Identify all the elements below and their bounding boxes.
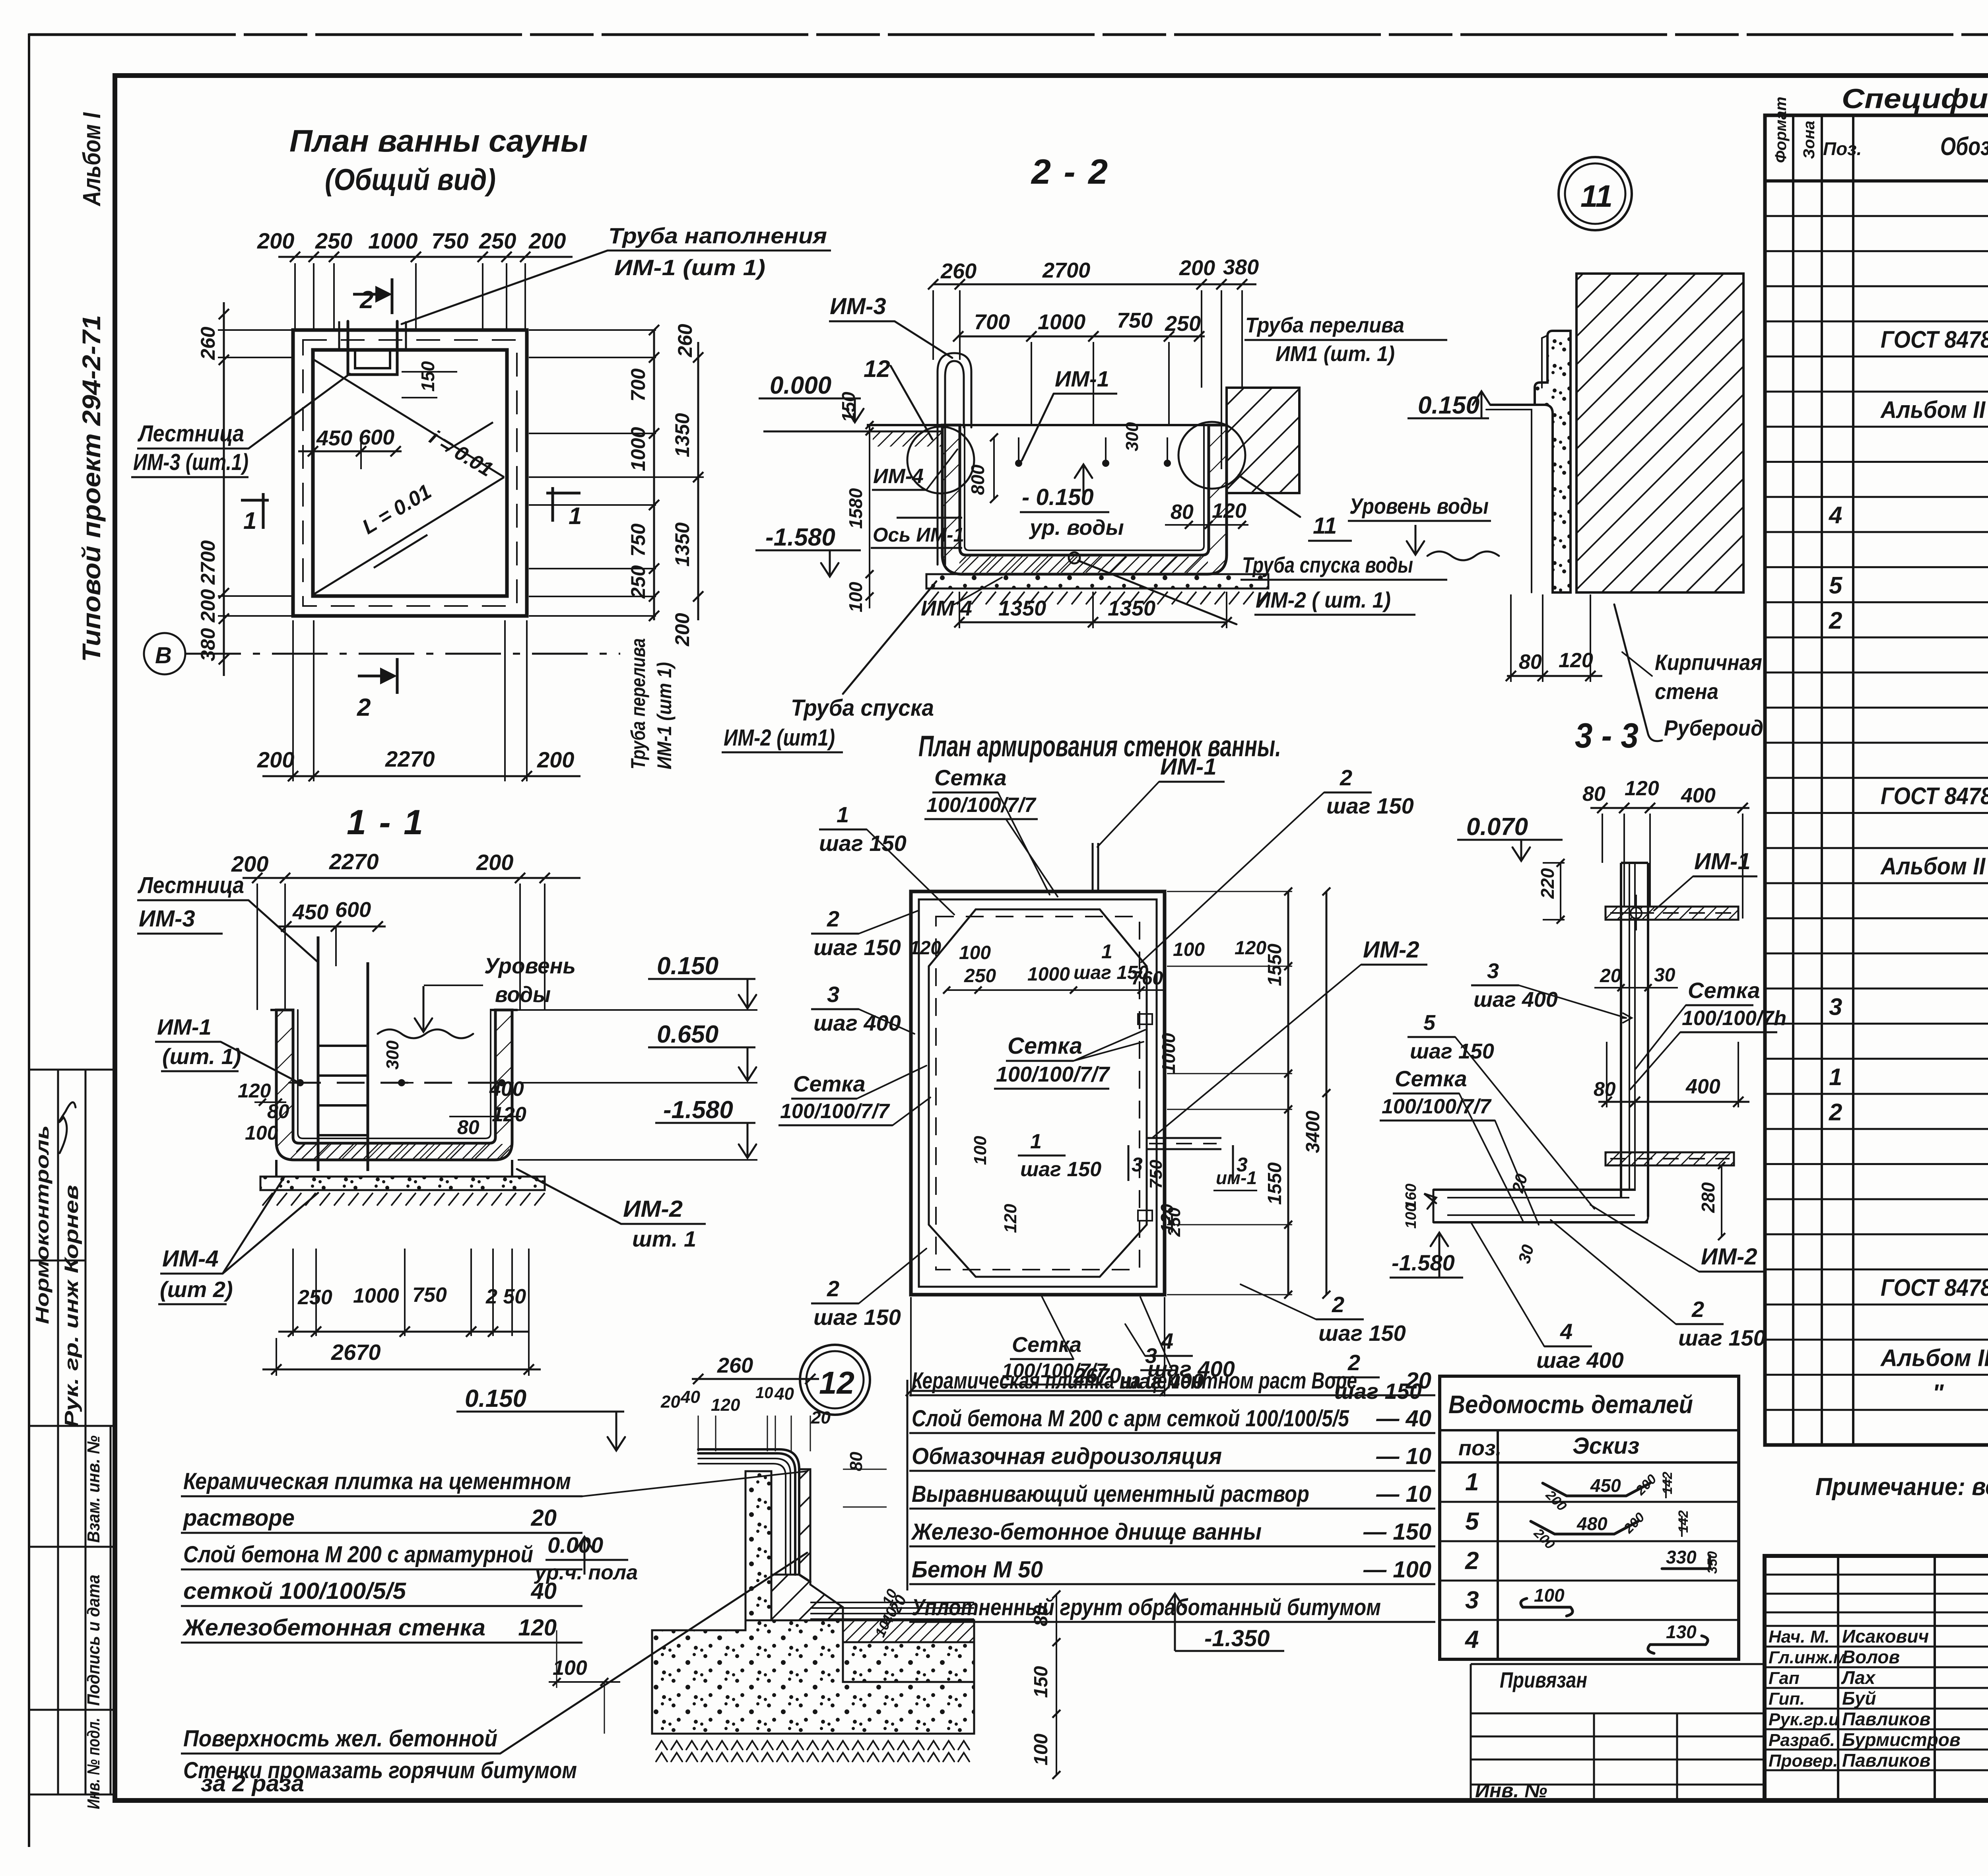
svg-text:шаг 400: шаг 400 bbox=[1536, 1348, 1624, 1373]
svg-text:Железо-бетонное днище ванны: Железо-бетонное днище ванны bbox=[911, 1519, 1262, 1545]
svg-text:-1.580: -1.580 bbox=[1392, 1250, 1455, 1275]
svg-text:Железобетонная стенка: Железобетонная стенка bbox=[182, 1615, 485, 1641]
svg-text:2: 2 bbox=[359, 286, 373, 314]
svg-text:100: 100 bbox=[1031, 1734, 1052, 1765]
svg-text:ИМ-4: ИМ-4 bbox=[873, 465, 924, 488]
svg-text:ИМ-2: ИМ-2 bbox=[1701, 1244, 1757, 1270]
svg-text:150: 150 bbox=[1031, 1666, 1052, 1698]
svg-text:2: 2 bbox=[1829, 1099, 1842, 1125]
svg-text:Сетка: Сетка bbox=[934, 765, 1007, 790]
svg-text:250: 250 bbox=[627, 565, 649, 599]
svg-text:0.150: 0.150 bbox=[657, 952, 718, 980]
svg-text:Альбом II лист КМИ 8: Альбом II лист КМИ 8 bbox=[1880, 1344, 1988, 1371]
svg-text:750: 750 bbox=[412, 1284, 447, 1307]
svg-text:Поз.: Поз. bbox=[1823, 138, 1862, 159]
svg-text:Труба наполнения: Труба наполнения bbox=[608, 223, 827, 248]
svg-text:Ведомость деталей: Ведомость деталей bbox=[1448, 1390, 1693, 1419]
svg-text:120: 120 bbox=[1235, 938, 1266, 959]
svg-text:План ванны сауны: План ванны сауны bbox=[289, 123, 588, 158]
svg-text:2: 2 bbox=[827, 906, 839, 931]
svg-text:Эскиз: Эскиз bbox=[1573, 1433, 1639, 1459]
svg-text:шт. 1: шт. 1 bbox=[632, 1226, 696, 1251]
svg-text:400: 400 bbox=[489, 1078, 524, 1101]
svg-text:Бурмистров: Бурмистров bbox=[1842, 1729, 1961, 1750]
svg-text:Труба перелива: Труба перелива bbox=[627, 638, 649, 769]
svg-text:5: 5 bbox=[1465, 1508, 1479, 1535]
svg-text:80: 80 bbox=[1594, 1078, 1616, 1100]
svg-text:2270: 2270 bbox=[329, 849, 379, 874]
svg-text:ИМ-2 (шт1): ИМ-2 (шт1) bbox=[724, 725, 835, 751]
svg-text:— 10: — 10 bbox=[1376, 1443, 1431, 1469]
svg-text:2: 2 bbox=[1691, 1297, 1704, 1322]
svg-text:Лестница: Лестница bbox=[137, 872, 244, 898]
svg-text:260: 260 bbox=[197, 326, 219, 360]
svg-text:0.070: 0.070 bbox=[1466, 813, 1528, 841]
svg-text:200: 200 bbox=[528, 228, 566, 253]
svg-text:-1.580: -1.580 bbox=[663, 1096, 733, 1124]
svg-text:12: 12 bbox=[819, 1365, 854, 1400]
svg-text:Сетка: Сетка bbox=[793, 1071, 866, 1096]
svg-text:ИМ-4: ИМ-4 bbox=[162, 1246, 219, 1272]
svg-text:750: 750 bbox=[627, 523, 649, 557]
svg-text:- 0.150: - 0.150 bbox=[1022, 484, 1094, 510]
svg-text:100: 100 bbox=[553, 1657, 587, 1680]
svg-text:Павликов: Павликов bbox=[1842, 1709, 1930, 1729]
svg-text:— 150: — 150 bbox=[1363, 1519, 1431, 1545]
svg-text:3400: 3400 bbox=[1303, 1111, 1324, 1153]
svg-text:ИМ-2: ИМ-2 bbox=[623, 1196, 683, 1222]
svg-text:1: 1 bbox=[1030, 1130, 1042, 1153]
svg-text:Альбом I: Альбом I bbox=[78, 112, 106, 206]
svg-text:Инв. № подл.: Инв. № подл. bbox=[84, 1718, 103, 1809]
svg-text:20: 20 bbox=[1405, 1368, 1431, 1394]
svg-text:80: 80 bbox=[1031, 1605, 1052, 1626]
svg-text:шаг 150: шаг 150 bbox=[813, 935, 901, 960]
svg-text:1350: 1350 bbox=[1108, 596, 1155, 620]
svg-text:Спецификация: Спецификация bbox=[1842, 83, 1988, 114]
svg-text:80: 80 bbox=[457, 1116, 480, 1138]
svg-text:0.000: 0.000 bbox=[770, 372, 831, 399]
svg-text:280: 280 bbox=[1698, 1182, 1718, 1213]
svg-text:Лах: Лах bbox=[1841, 1667, 1876, 1688]
svg-text:4: 4 bbox=[1560, 1319, 1573, 1344]
svg-text:Буй: Буй bbox=[1842, 1688, 1876, 1709]
svg-text:Выравнивающий цементный раст: Выравнивающий цементный раствор bbox=[912, 1481, 1309, 1507]
svg-text:Труба спуска воды: Труба спуска воды bbox=[1242, 552, 1413, 577]
svg-text:2: 2 bbox=[1340, 765, 1352, 790]
svg-text:Исакович: Исакович bbox=[1842, 1626, 1929, 1647]
svg-text:200: 200 bbox=[1179, 256, 1215, 280]
svg-text:— 40: — 40 bbox=[1376, 1406, 1431, 1431]
svg-text:250: 250 bbox=[479, 228, 516, 253]
svg-text:Слой бетона М 200 с арм сеткой: Слой бетона М 200 с арм сеткой 100/100/5… bbox=[912, 1406, 1349, 1431]
svg-text:Уровень: Уровень bbox=[484, 953, 576, 978]
svg-text:3: 3 bbox=[827, 982, 839, 1007]
svg-text:ИМ-1: ИМ-1 bbox=[157, 1014, 212, 1039]
svg-text:воды: воды bbox=[495, 982, 551, 1007]
svg-text:стена: стена bbox=[1655, 679, 1718, 704]
svg-text:20: 20 bbox=[660, 1392, 680, 1412]
svg-text:4: 4 bbox=[1464, 1626, 1479, 1653]
svg-text:3: 3 bbox=[1487, 959, 1499, 983]
svg-text:ур. воды: ур. воды bbox=[1029, 516, 1124, 540]
svg-text:20: 20 bbox=[1600, 965, 1621, 987]
svg-text:Типовой проект 294-2-71: Типовой проект 294-2-71 bbox=[77, 315, 106, 662]
svg-text:400: 400 bbox=[1681, 784, 1716, 807]
svg-text:250: 250 bbox=[315, 228, 352, 253]
svg-text:1000: 1000 bbox=[368, 228, 418, 253]
svg-text:Павликов: Павликов bbox=[1842, 1750, 1930, 1771]
svg-text:Рук. гр. инж Корнев: Рук. гр. инж Корнев bbox=[61, 1185, 82, 1427]
svg-text:за 2 раза: за 2 раза bbox=[201, 1771, 304, 1796]
svg-text:ИМ-1 (шт 1): ИМ-1 (шт 1) bbox=[653, 662, 676, 769]
svg-text:1350: 1350 bbox=[671, 413, 693, 457]
svg-text:Труба спуска: Труба спуска bbox=[791, 695, 934, 721]
svg-text:750: 750 bbox=[1117, 309, 1153, 332]
svg-text:5: 5 bbox=[1829, 572, 1843, 599]
svg-text:2700: 2700 bbox=[1042, 258, 1090, 282]
svg-text:100/100/7/7: 100/100/7/7 bbox=[1382, 1095, 1492, 1118]
svg-text:120: 120 bbox=[1001, 1204, 1020, 1233]
svg-text:150: 150 bbox=[838, 392, 859, 422]
svg-text:4: 4 bbox=[1161, 1328, 1173, 1354]
svg-text:Труба перелива: Труба перелива bbox=[1245, 313, 1404, 337]
svg-text:Рубероид: Рубероид bbox=[1664, 715, 1763, 740]
svg-text:Примечание: ведомость расход: Примечание: ведомость расхода стали см. … bbox=[1815, 1473, 1988, 1501]
svg-text:450: 450 bbox=[1590, 1475, 1621, 1496]
svg-text:2270: 2270 bbox=[385, 746, 435, 771]
svg-text:100: 100 bbox=[845, 582, 866, 612]
svg-text:Взам. инв. №: Взам. инв. № bbox=[84, 1435, 103, 1543]
svg-text:ИМ-3: ИМ-3 bbox=[139, 906, 195, 932]
svg-text:Керамическая плитка на цементн: Керамическая плитка на цементном bbox=[183, 1468, 571, 1494]
svg-text:1350: 1350 bbox=[671, 522, 693, 567]
svg-text:20: 20 bbox=[811, 1408, 831, 1427]
svg-text:Поверхность жел. бетонной: Поверхность жел. бетонной bbox=[183, 1726, 497, 1752]
svg-text:100: 100 bbox=[959, 942, 991, 963]
svg-text:120: 120 bbox=[711, 1395, 740, 1415]
svg-text:100/100/7/7: 100/100/7/7 bbox=[780, 1100, 890, 1123]
svg-text:120: 120 bbox=[1157, 1204, 1177, 1233]
svg-text:0.650: 0.650 bbox=[657, 1021, 718, 1048]
svg-text:1000: 1000 bbox=[1038, 310, 1085, 334]
svg-text:260: 260 bbox=[674, 324, 696, 357]
svg-text:1000: 1000 bbox=[1027, 964, 1070, 985]
svg-text:3: 3 bbox=[1132, 1154, 1143, 1176]
svg-text:800: 800 bbox=[967, 464, 988, 495]
svg-text:142: 142 bbox=[1660, 1472, 1675, 1494]
svg-text:150: 150 bbox=[417, 361, 438, 392]
svg-text:шаг 150: шаг 150 bbox=[1020, 1158, 1101, 1181]
svg-text:Формат: Формат bbox=[1772, 97, 1790, 163]
svg-text:2700: 2700 bbox=[197, 540, 219, 585]
svg-text:Инв. №: Инв. № bbox=[1475, 1779, 1547, 1802]
svg-text:Бетон М 50: Бетон М 50 bbox=[912, 1557, 1043, 1583]
svg-text:ИМ 4: ИМ 4 bbox=[921, 596, 972, 620]
svg-text:480: 480 bbox=[1576, 1513, 1607, 1534]
svg-text:80: 80 bbox=[1519, 651, 1542, 674]
svg-text:200: 200 bbox=[197, 589, 219, 623]
svg-text:120: 120 bbox=[518, 1615, 557, 1641]
svg-text:200: 200 bbox=[476, 850, 513, 875]
svg-text:ИМ-3: ИМ-3 bbox=[830, 293, 886, 319]
svg-text:Уплотненный грунт обработанн: Уплотненный грунт обработанный битумом bbox=[912, 1594, 1381, 1620]
svg-text:шаг 150: шаг 150 bbox=[813, 1305, 901, 1330]
svg-text:2: 2 bbox=[357, 694, 371, 721]
svg-text:700: 700 bbox=[627, 368, 649, 402]
svg-text:100: 100 bbox=[971, 1136, 990, 1165]
svg-text:450: 450 bbox=[292, 900, 328, 924]
svg-text:4: 4 bbox=[1829, 502, 1842, 528]
svg-text:(шт. 1): (шт. 1) bbox=[162, 1044, 241, 1069]
svg-text:-1.350: -1.350 bbox=[1204, 1625, 1270, 1651]
svg-text:Гл.инж.м: Гл.инж.м bbox=[1769, 1648, 1846, 1667]
svg-text:1550: 1550 bbox=[1264, 944, 1285, 986]
svg-text:3: 3 bbox=[1237, 1154, 1248, 1176]
svg-text:100: 100 bbox=[245, 1122, 278, 1144]
svg-text:1: 1 bbox=[569, 503, 582, 529]
svg-text:250: 250 bbox=[1165, 312, 1201, 336]
svg-text:5: 5 bbox=[1423, 1011, 1436, 1035]
svg-text:шаг 150: шаг 150 bbox=[1410, 1039, 1494, 1063]
svg-text:ИМ-2: ИМ-2 bbox=[1363, 937, 1419, 963]
svg-text:120: 120 bbox=[909, 938, 941, 959]
svg-text:ИМ-2 ( шт. 1): ИМ-2 ( шт. 1) bbox=[1256, 587, 1391, 612]
svg-text:ГОСТ 8478-66: ГОСТ 8478-66 bbox=[1881, 1274, 1988, 1301]
svg-text:поз.: поз. bbox=[1458, 1436, 1502, 1460]
svg-text:0.150: 0.150 bbox=[465, 1385, 526, 1412]
svg-text:2: 2 bbox=[1829, 607, 1842, 634]
svg-text:шаг 150: шаг 150 bbox=[1326, 793, 1414, 818]
svg-text:Провер.: Провер. bbox=[1769, 1751, 1838, 1771]
svg-text:шаг 150: шаг 150 bbox=[1678, 1325, 1766, 1350]
svg-text:Гап: Гап bbox=[1769, 1668, 1800, 1688]
svg-text:ИМ1 (шт. 1): ИМ1 (шт. 1) bbox=[1276, 342, 1395, 366]
svg-text:100/100/7/7: 100/100/7/7 bbox=[926, 794, 1037, 817]
svg-text:Керамическая плитка на цементн: Керамическая плитка на цементном раст Во… bbox=[912, 1368, 1357, 1394]
svg-text:1000: 1000 bbox=[1158, 1033, 1179, 1074]
svg-text:100: 100 bbox=[1403, 1204, 1419, 1229]
svg-text:80: 80 bbox=[846, 1452, 866, 1471]
svg-text:100/100/7/7: 100/100/7/7 bbox=[996, 1062, 1110, 1086]
svg-text:40: 40 bbox=[530, 1578, 557, 1604]
svg-text:Кирпичная: Кирпичная bbox=[1655, 650, 1762, 675]
svg-text:100/100/7h: 100/100/7h bbox=[1682, 1007, 1786, 1030]
svg-text:ИМ-3 (шт.1): ИМ-3 (шт.1) bbox=[133, 449, 248, 475]
svg-text:3: 3 bbox=[1465, 1587, 1479, 1614]
svg-text:План армирования стенок ванн: План армирования стенок ванны. bbox=[918, 730, 1281, 763]
svg-text:3: 3 bbox=[1829, 993, 1842, 1020]
svg-text:1000: 1000 bbox=[627, 427, 649, 471]
svg-text:20: 20 bbox=[530, 1505, 557, 1531]
svg-text:300: 300 bbox=[1122, 422, 1142, 451]
svg-text:Нормоконтроль: Нормоконтроль bbox=[32, 1125, 52, 1324]
svg-text:ИМ-1: ИМ-1 bbox=[1160, 754, 1217, 780]
svg-text:142: 142 bbox=[1676, 1510, 1691, 1533]
svg-text:Обмазочная гидроизоляция: Обмазочная гидроизоляция bbox=[912, 1443, 1222, 1469]
svg-text:ГОСТ 8478-66: ГОСТ 8478-66 bbox=[1881, 783, 1988, 810]
svg-text:1550: 1550 bbox=[1264, 1162, 1285, 1205]
svg-text:Альбом II , лист КМИ 6: Альбом II , лист КМИ 6 bbox=[1880, 853, 1988, 880]
svg-text:600: 600 bbox=[359, 425, 394, 449]
svg-text:— 100: — 100 bbox=[1363, 1557, 1431, 1583]
svg-text:120: 120 bbox=[1559, 649, 1593, 672]
svg-text:450: 450 bbox=[316, 426, 352, 450]
svg-text:ГОСТ 8478-66: ГОСТ 8478-66 bbox=[1881, 326, 1988, 353]
svg-text:Зона: Зона bbox=[1800, 120, 1818, 159]
svg-text:Подпись и дата: Подпись и дата bbox=[84, 1575, 103, 1706]
svg-text:100: 100 bbox=[1173, 939, 1205, 960]
svg-text:260: 260 bbox=[717, 1354, 753, 1377]
svg-text:12: 12 bbox=[864, 355, 890, 382]
svg-text:2: 2 bbox=[1332, 1292, 1344, 1317]
svg-text:11: 11 bbox=[1313, 513, 1337, 539]
svg-text:ИМ-1: ИМ-1 bbox=[1055, 366, 1109, 391]
svg-text:Уровень воды: Уровень воды bbox=[1349, 493, 1489, 519]
svg-text:Лестница: Лестница bbox=[137, 421, 244, 447]
svg-text:1: 1 bbox=[243, 507, 256, 534]
svg-text:сеткой 100/100/5/5: сеткой 100/100/5/5 bbox=[183, 1578, 406, 1604]
svg-text:Обозначение: Обозначение bbox=[1940, 132, 1988, 161]
svg-text:— 10: — 10 bbox=[1376, 1481, 1431, 1507]
svg-text:100: 100 bbox=[1534, 1585, 1565, 1606]
svg-text:Слой бетона М 200 с арматурной: Слой бетона М 200 с арматурной bbox=[183, 1542, 533, 1567]
svg-text:1: 1 bbox=[1465, 1468, 1479, 1496]
svg-text:40: 40 bbox=[774, 1384, 794, 1404]
svg-text:Разраб.: Разраб. bbox=[1769, 1730, 1835, 1750]
svg-text:120: 120 bbox=[1212, 499, 1246, 522]
svg-text:350: 350 bbox=[1705, 1551, 1720, 1574]
svg-text:(шт 2): (шт 2) bbox=[160, 1277, 233, 1302]
svg-text:330: 330 bbox=[1666, 1547, 1697, 1567]
svg-text:Гип.: Гип. bbox=[1769, 1689, 1805, 1709]
svg-text:1350: 1350 bbox=[998, 596, 1046, 620]
svg-text:220: 220 bbox=[1537, 868, 1558, 899]
svg-text:1 - 1: 1 - 1 bbox=[347, 802, 425, 842]
svg-text:260: 260 bbox=[940, 259, 977, 283]
svg-text:шаг 150: шаг 150 bbox=[1318, 1321, 1406, 1346]
svg-text:1000: 1000 bbox=[353, 1284, 399, 1307]
svg-text:2670: 2670 bbox=[331, 1340, 381, 1365]
svg-text:80: 80 bbox=[267, 1100, 289, 1122]
svg-text:380: 380 bbox=[197, 628, 219, 661]
svg-text:шаг 400: шаг 400 bbox=[1474, 988, 1558, 1012]
svg-text:2 50: 2 50 bbox=[485, 1285, 526, 1308]
svg-text:(Общий вид): (Общий вид) bbox=[325, 163, 496, 197]
svg-text:120: 120 bbox=[492, 1103, 526, 1126]
svg-text:Альбом II , лист КМИ 7: Альбом II , лист КМИ 7 bbox=[1880, 396, 1988, 423]
svg-text:ИМ-1: ИМ-1 bbox=[1694, 849, 1751, 874]
svg-text:30: 30 bbox=[1654, 965, 1675, 986]
svg-text:0.150: 0.150 bbox=[1418, 392, 1479, 419]
svg-text:-1.580: -1.580 bbox=[765, 524, 835, 551]
svg-text:750: 750 bbox=[431, 228, 468, 253]
svg-text:600: 600 bbox=[335, 898, 371, 922]
svg-text:200: 200 bbox=[257, 228, 294, 253]
svg-text:120: 120 bbox=[238, 1080, 271, 1102]
svg-text:11: 11 bbox=[1580, 179, 1613, 214]
svg-text:10: 10 bbox=[755, 1384, 773, 1402]
svg-text:130: 130 bbox=[1666, 1622, 1697, 1642]
svg-text:300: 300 bbox=[383, 1040, 402, 1070]
svg-text:шаг 400: шаг 400 bbox=[813, 1010, 901, 1035]
svg-text:380: 380 bbox=[1223, 255, 1259, 279]
svg-text:Нач. М.: Нач. М. bbox=[1769, 1627, 1830, 1647]
svg-text:40: 40 bbox=[680, 1387, 700, 1407]
svg-text:Сетка: Сетка bbox=[1008, 1033, 1082, 1059]
svg-text:Волов: Волов bbox=[1842, 1647, 1900, 1667]
svg-text:шаг 150: шаг 150 bbox=[819, 831, 907, 856]
svg-text:3 - 3: 3 - 3 bbox=[1575, 716, 1639, 755]
svg-text:Привязан: Привязан bbox=[1500, 1667, 1587, 1692]
svg-text:В: В bbox=[155, 643, 172, 668]
svg-text:2: 2 bbox=[827, 1276, 839, 1301]
svg-text:": " bbox=[1932, 1380, 1944, 1406]
svg-text:1: 1 bbox=[1829, 1064, 1842, 1090]
svg-text:2: 2 bbox=[1465, 1547, 1479, 1575]
svg-text:Рук.гр.и: Рук.гр.и bbox=[1769, 1710, 1839, 1729]
svg-text:ИМ-1 (шт 1): ИМ-1 (шт 1) bbox=[614, 255, 765, 280]
svg-text:1: 1 bbox=[1101, 940, 1112, 963]
svg-text:700: 700 bbox=[974, 310, 1010, 334]
svg-text:Сетка: Сетка bbox=[1688, 978, 1760, 1003]
svg-text:80: 80 bbox=[1582, 783, 1606, 806]
svg-text:250: 250 bbox=[964, 965, 996, 987]
svg-text:400: 400 bbox=[1685, 1075, 1720, 1098]
svg-text:250: 250 bbox=[297, 1286, 332, 1309]
svg-text:растворе: растворе bbox=[182, 1505, 295, 1531]
svg-text:80: 80 bbox=[1171, 501, 1194, 524]
svg-text:120: 120 bbox=[1625, 777, 1659, 800]
svg-text:750: 750 bbox=[1146, 1159, 1166, 1189]
svg-text:200: 200 bbox=[537, 747, 574, 772]
svg-text:1580: 1580 bbox=[845, 488, 866, 529]
svg-text:1: 1 bbox=[837, 802, 849, 827]
svg-text:2 - 2: 2 - 2 bbox=[1031, 152, 1109, 191]
svg-text:0.000: 0.000 bbox=[547, 1532, 603, 1558]
svg-text:200: 200 bbox=[671, 613, 693, 647]
svg-text:Сетка: Сетка bbox=[1395, 1066, 1467, 1091]
svg-text:200: 200 bbox=[257, 747, 294, 772]
svg-text:шаг 150: шаг 150 bbox=[1074, 962, 1149, 983]
